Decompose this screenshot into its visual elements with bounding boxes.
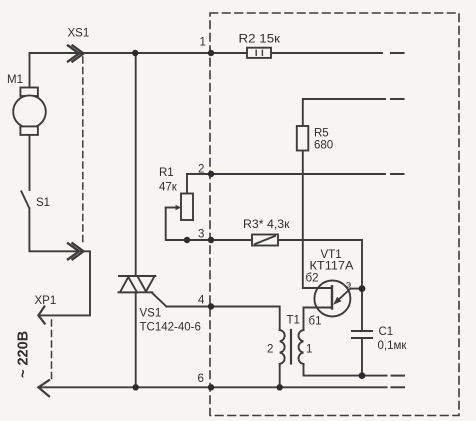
node 2 <box>208 171 214 177</box>
plug XP1 pin top <box>38 307 44 324</box>
wire C1 bottom rail <box>304 338 363 376</box>
node 6 <box>208 384 214 390</box>
wire node 3 rail to emitter <box>166 208 362 289</box>
triac VS1 <box>118 276 166 307</box>
plug XP1 pin bottom <box>38 380 49 396</box>
svg-text:б2: б2 <box>306 273 319 285</box>
connector XS1 dashed link <box>82 57 84 245</box>
svg-text:2: 2 <box>198 164 204 176</box>
wire C1 rail right <box>362 375 387 377</box>
wire base1 to winding1 <box>304 308 333 331</box>
transistor VT1 (UJT) <box>314 281 350 317</box>
svg-text:2: 2 <box>267 344 273 356</box>
motor M1 <box>13 88 46 135</box>
wire triac branch lower <box>135 292 137 387</box>
wire R5 bottom to base2 <box>303 151 315 289</box>
wire off-page dash node2 <box>391 173 404 175</box>
svg-text:R3* 4,3к: R3* 4,3к <box>243 219 291 231</box>
wire emitter to C1 <box>351 289 363 331</box>
wire R5 top rail <box>303 99 385 126</box>
connector XS1 pin top <box>68 46 84 62</box>
transformer T1 winding 1 <box>299 330 304 364</box>
resistor R3 <box>252 235 278 246</box>
wire node 2 rail <box>187 174 385 194</box>
node junction top rail / triac <box>132 50 138 56</box>
svg-text:э: э <box>346 280 351 291</box>
svg-text:C1: C1 <box>379 326 394 338</box>
resistor R2 <box>247 48 271 58</box>
wire top rail (node 1) <box>30 53 383 88</box>
connector XS1 pin bottom <box>68 243 84 259</box>
wire off-page dash C1 rail <box>392 375 405 377</box>
svg-text:3: 3 <box>198 229 204 241</box>
svg-text:R5: R5 <box>314 128 329 140</box>
svg-text:M1: M1 <box>7 74 23 86</box>
wire off-page dash node1 <box>391 52 404 54</box>
node triac bottom <box>133 384 139 390</box>
svg-text:1: 1 <box>200 37 206 49</box>
svg-text:6: 6 <box>198 373 204 385</box>
wire off-page dash R5 rail <box>391 98 404 100</box>
capacitor C1 <box>352 331 372 338</box>
dashed box (regulator module border) <box>210 13 459 416</box>
svg-text:S1: S1 <box>36 197 50 209</box>
node C1 bottom <box>359 372 366 379</box>
wire triac branch upper <box>135 53 137 276</box>
resistor R5 <box>297 126 309 151</box>
svg-text:4: 4 <box>198 295 205 307</box>
switch S1 <box>21 191 29 208</box>
svg-text:~ 220В: ~ 220В <box>16 331 32 378</box>
svg-text:XP1: XP1 <box>35 295 57 307</box>
node 1 <box>208 50 214 56</box>
node R1 wiper junction <box>184 237 190 243</box>
svg-text:VT1: VT1 <box>321 249 342 261</box>
wire gate rail node 4 <box>166 307 279 331</box>
svg-text:КТ117А: КТ117А <box>310 261 354 273</box>
transformer T1 core <box>290 330 292 364</box>
svg-text:R2 15к: R2 15к <box>239 34 282 46</box>
transformer T1 winding 2 <box>280 330 285 364</box>
wire winding2 bottom lead <box>279 364 281 387</box>
svg-text:0,1мк: 0,1мк <box>378 340 408 352</box>
svg-text:XS1: XS1 <box>68 28 90 40</box>
svg-text:ТС142-40-6: ТС142-40-6 <box>140 322 201 334</box>
wire motor to switch <box>29 135 31 190</box>
svg-text:1: 1 <box>306 344 312 356</box>
node 4 <box>208 303 214 309</box>
resistor R1 (rheostat) <box>166 194 193 221</box>
svg-text:R1: R1 <box>159 167 174 179</box>
svg-text:T1: T1 <box>287 315 300 327</box>
node winding2 bottom <box>277 384 283 390</box>
wire switch to XP1 <box>29 209 90 316</box>
node 3 <box>208 237 214 243</box>
svg-text:47к: 47к <box>159 182 178 194</box>
svg-text:680: 680 <box>314 140 333 152</box>
plug XP1 dashed link <box>51 320 53 381</box>
node emitter <box>359 285 366 292</box>
svg-text:VS1: VS1 <box>140 308 162 320</box>
wire off-page dash node6 <box>392 386 405 388</box>
wire bottom rail (node 6) <box>38 386 386 388</box>
svg-text:б1: б1 <box>309 316 322 328</box>
